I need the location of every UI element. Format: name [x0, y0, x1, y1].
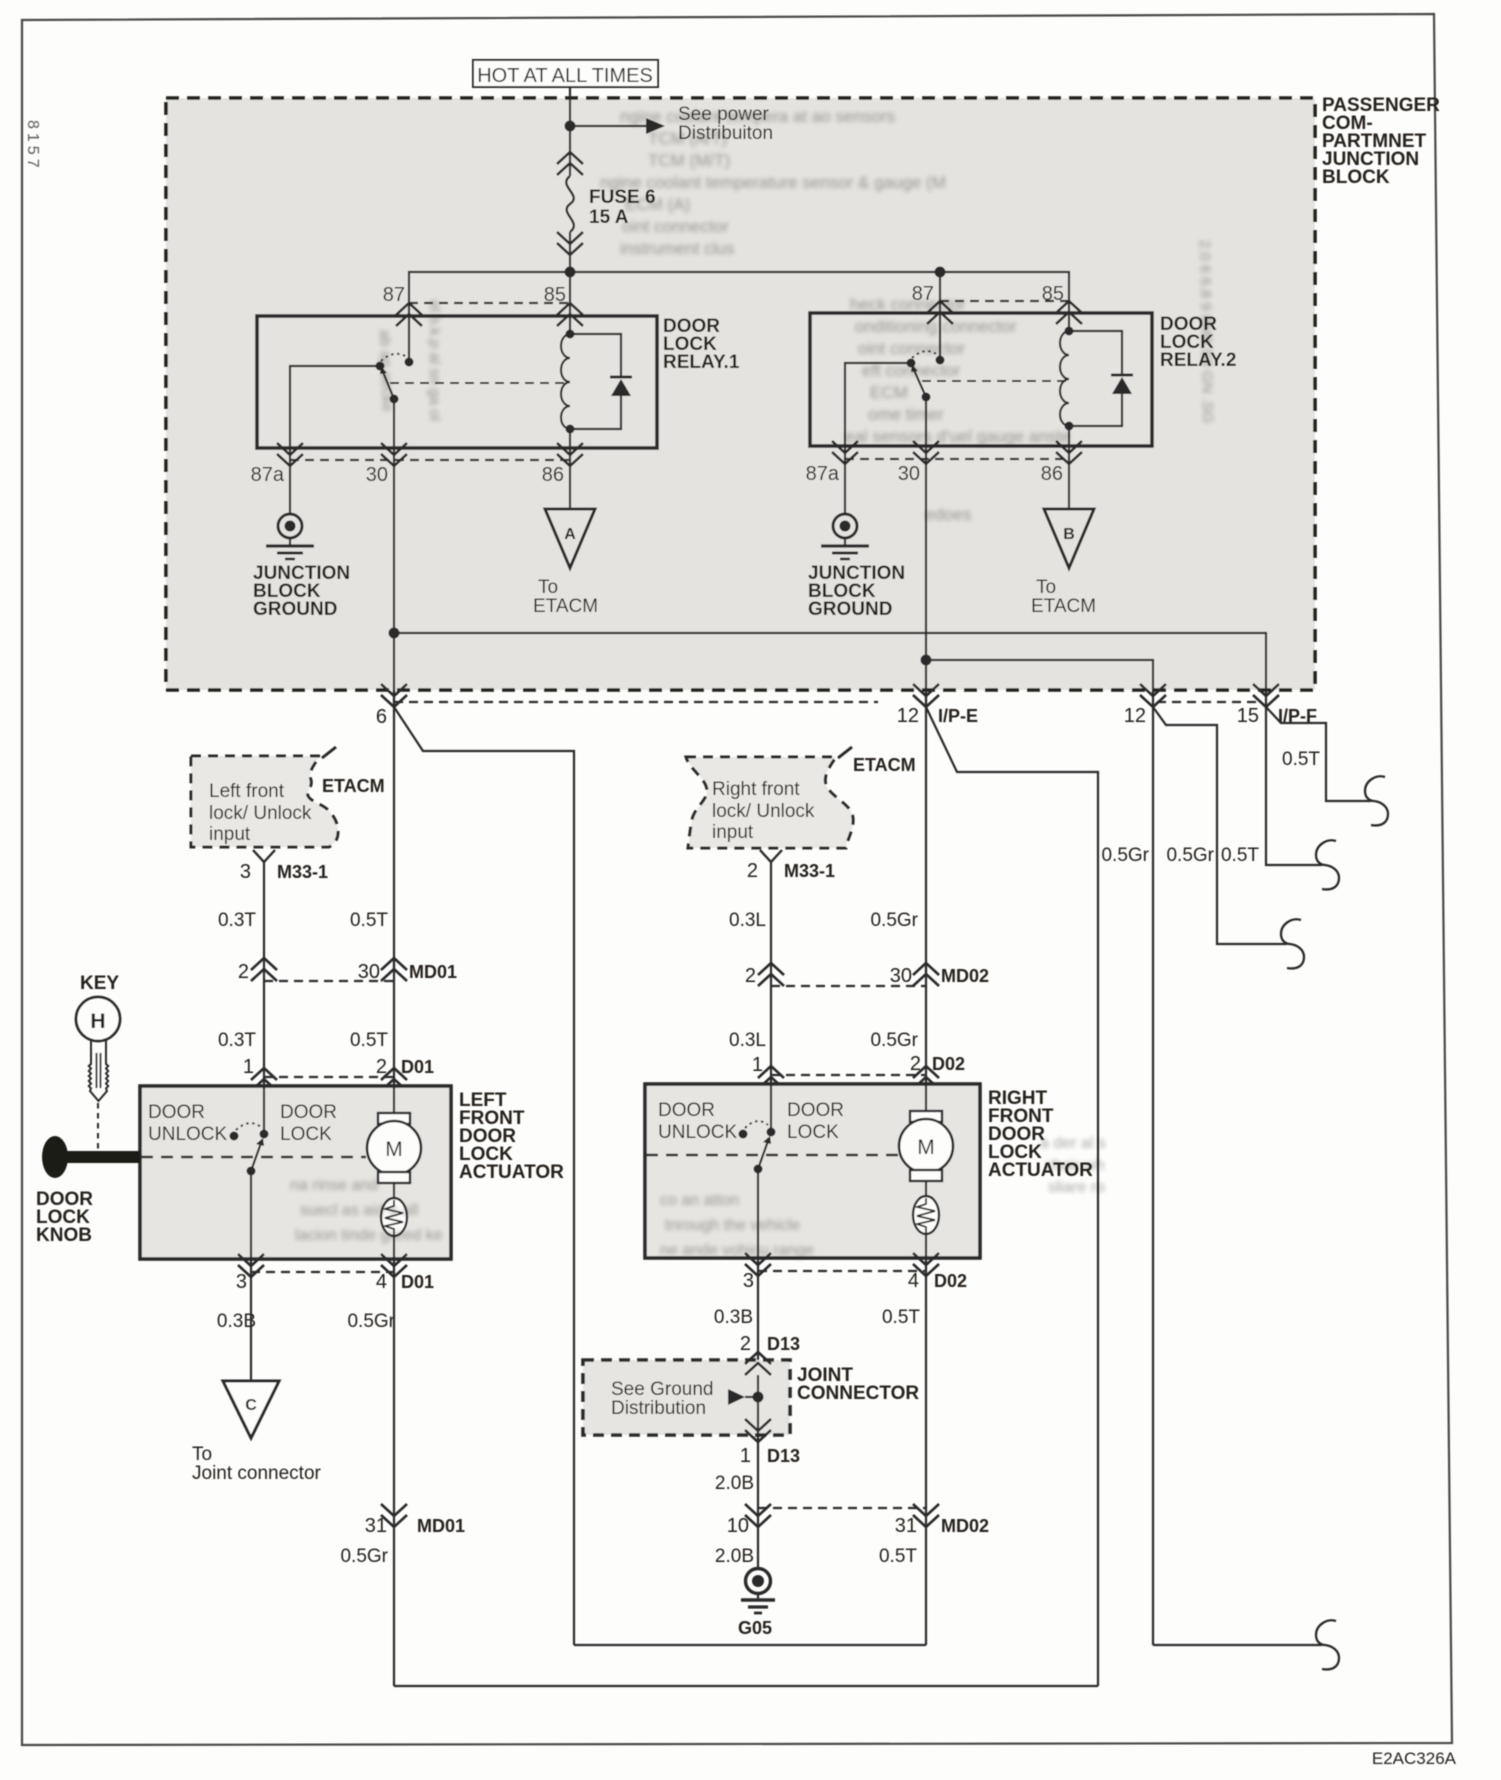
node on wire 30/6: [389, 628, 400, 639]
relay 2 contact dot (87): [936, 356, 945, 365]
relay 2 pin dashed link 87a-30-86: [845, 458, 1069, 460]
relay 2 diode D2: [1111, 375, 1133, 394]
svg-text:el b.k.p al sn ga ol: el b.k.p al sn ga ol: [426, 300, 443, 421]
right actuator thermistor: [913, 1181, 939, 1258]
relay 2 contact dot (87a side): [907, 359, 916, 368]
relay 1 pin 85: [544, 284, 583, 326]
svg-text:4: 4: [376, 1271, 387, 1293]
right actuator lock contact dot: [767, 1128, 776, 1137]
relay 1 pin 30: [366, 443, 407, 486]
svg-text:86: 86: [1041, 463, 1063, 485]
ETACM bubble right (Right front lock/Unlock input): [686, 747, 853, 848]
relay 1 mechanical link (dashed): [390, 382, 570, 384]
svg-text:UNLOCK: UNLOCK: [148, 1124, 228, 1145]
svg-text:Distribution: Distribution: [611, 1398, 706, 1419]
left actuator lock contact dot: [260, 1130, 269, 1139]
relay 2 internal: 87 wire to contact: [939, 313, 941, 360]
squiggle end of 0.5T x1266 wire: [1316, 840, 1339, 889]
svg-text:6: 6: [376, 706, 387, 728]
exit pin 15 I/P-F: [1237, 684, 1317, 727]
svg-text:lock/ Unlock: lock/ Unlock: [209, 803, 312, 824]
svg-text:30: 30: [898, 463, 920, 485]
triangle connector C (to joint connector): [192, 1381, 322, 1484]
svg-text:0.3B: 0.3B: [714, 1307, 753, 1328]
left actuator mechanical link dashed: [141, 1156, 366, 1159]
right actuator pivot dot: [754, 1165, 763, 1174]
svg-text:TCM (M/T): TCM (M/T): [648, 151, 730, 170]
junction block ground symbol 2: [821, 514, 869, 559]
wire labels right row: [1101, 845, 1259, 866]
svg-text:2: 2: [376, 1056, 387, 1078]
svg-text:Left front: Left front: [209, 781, 285, 802]
node: branch to relay 2 pin 87: [935, 267, 946, 278]
wire MD02/2 down (0.3L): [770, 986, 772, 1084]
svg-text:chair wh: chair wh: [1045, 1157, 1105, 1174]
svg-text:0.5Gr: 0.5Gr: [347, 1311, 395, 1332]
label 0.3L lower: [729, 1030, 766, 1051]
svg-text:2: 2: [910, 1053, 921, 1075]
relay 1 pin 85 wire from feed: [569, 272, 571, 316]
svg-text:D13: D13: [767, 1446, 800, 1466]
svg-text:D13: D13: [767, 1334, 800, 1354]
svg-text:ETACM: ETACM: [322, 776, 385, 796]
svg-text:DOOR: DOOR: [787, 1100, 844, 1121]
relay 1 diode branch wires: [570, 334, 621, 429]
svg-text:M33-1: M33-1: [277, 862, 328, 882]
relay 2 switch blade: [911, 364, 926, 397]
svg-text:ab ap aecke: ab ap aecke: [376, 330, 396, 412]
relay 2 pin 85: [1042, 283, 1082, 324]
connector MD02 pin 10: [727, 1504, 771, 1537]
svg-text:DOOR: DOOR: [148, 1102, 205, 1123]
exit pin 12 (second): [1124, 684, 1166, 727]
right actuator DOOR UNLOCK label: [658, 1100, 738, 1143]
bottom wire loop right actuator to exit6 jog: [574, 1644, 926, 1646]
label 0.5Gr upper right col: [870, 910, 918, 931]
D02 bottom dashed link: [758, 1270, 926, 1272]
svg-text:suecl as aid e all: suecl as aid e all: [300, 1202, 418, 1219]
svg-text:D01: D01: [401, 1272, 434, 1292]
svg-text:87a: 87a: [806, 463, 840, 485]
svg-text:10: 10: [727, 1515, 749, 1537]
RIGHT FRONT DOOR LOCK ACTUATOR box: [645, 1084, 980, 1258]
svg-text:1: 1: [243, 1056, 254, 1078]
left actuator label: [459, 1090, 564, 1183]
relay 1 pin 86: [542, 443, 583, 486]
svg-text:onditioning connector: onditioning connector: [855, 317, 1017, 336]
passenger compartment junction block (dashed, shaded): [166, 98, 1315, 690]
faint page number 8157: [24, 120, 41, 172]
label 0.5T lower left col: [350, 1030, 388, 1051]
label PASSENGER COM-PARTMNET JUNCTION BLOCK: [1322, 95, 1440, 188]
relay 2 wire pivot to pin 30: [925, 397, 927, 446]
node: fuse output / relay feed: [565, 267, 576, 278]
svg-text:KEY: KEY: [80, 973, 119, 994]
connector D02 pin 1 chevron: [752, 1054, 784, 1089]
wire 0.5T label right top: [1282, 749, 1320, 770]
relay 2 pin 87a: [806, 441, 858, 485]
svg-text:co an atton: co an atton: [660, 1192, 739, 1209]
svg-text:2: 2: [745, 965, 756, 987]
svg-text:tnrough the vehicle: tnrough the vehicle: [665, 1217, 800, 1234]
squiggle end of x1153 wire: [1316, 1620, 1339, 1669]
label 0.5Gr left col: [347, 1311, 395, 1332]
relay 2 pin dashed link 87-85: [940, 300, 1069, 302]
right actuator pin 4 chevron: [908, 1253, 967, 1292]
connector MD02 pin 2 chevron: [745, 963, 784, 987]
wire left actuator pin4 down (0.5Gr): [393, 1259, 395, 1686]
relay 1 wire coil to pin 86: [569, 429, 571, 448]
relay 2 pin 30: [898, 441, 939, 485]
relay 1 switch blade: [380, 366, 394, 399]
svg-text:MD01: MD01: [409, 962, 457, 982]
wire node to exit 12 (second): [926, 660, 1153, 707]
svg-text:ETACM: ETACM: [853, 755, 916, 775]
relay 1 wire 85 to coil: [569, 316, 571, 334]
svg-text:ETACM: ETACM: [1031, 596, 1096, 617]
svg-text:ngine coolant temperature sens: ngine coolant temperature sensor & gauge…: [600, 173, 946, 192]
svg-text:na rinse and: na rinse and: [290, 1177, 378, 1194]
feed wire to both relays: [409, 272, 1069, 316]
relay 1 label: [663, 316, 740, 373]
svg-text:heck connector: heck connector: [850, 295, 966, 314]
relay 2 pivot dot (30): [922, 393, 931, 402]
connector D13 pin 2: [740, 1333, 800, 1375]
svg-text:a der al s: a der al s: [1040, 1135, 1106, 1152]
svg-text:input: input: [209, 824, 251, 845]
left actuator switch blade: [251, 1138, 264, 1171]
svg-text:E2AC326A: E2AC326A: [1372, 1749, 1457, 1768]
wire MD02/30 down (0.5Gr): [925, 963, 927, 1084]
svg-text:oint connector: oint connector: [858, 339, 965, 358]
label 0.5T upper left col: [350, 910, 388, 931]
relay 2 throw arc (dotted): [912, 351, 938, 358]
svg-text:ETACM: ETACM: [533, 596, 598, 617]
connector MD02 pin 30 chevron: [890, 963, 989, 987]
right actuator unlock contact dot: [739, 1130, 748, 1139]
connector D02 pin 2 chevron: [910, 1053, 965, 1089]
left actuator pin 4 chevron: [376, 1254, 434, 1293]
wire relay2 30 down to exit I/P-E 12: [925, 446, 927, 707]
MD02 10-31 dashed link: [758, 1507, 926, 1509]
right actuator wire pin1 to contact: [770, 1084, 772, 1132]
svg-text:2: 2: [238, 961, 249, 983]
svg-text:H: H: [90, 1010, 105, 1033]
squiggle end of 0.5Gr x1217 wire: [1281, 919, 1304, 968]
wire through joint connector: [757, 1375, 759, 1420]
svg-text:Joint connector: Joint connector: [192, 1463, 322, 1484]
wire relay1 87a to ground: [289, 448, 291, 514]
svg-text:1: 1: [752, 1054, 763, 1076]
svg-text:D01: D01: [401, 1057, 434, 1077]
svg-text:2.0B: 2.0B: [715, 1473, 754, 1494]
node on wire relay2-30: [921, 655, 932, 666]
svg-text:3: 3: [743, 1270, 754, 1292]
relay 2 coil top node: [1065, 327, 1074, 336]
svg-text:M: M: [385, 1138, 403, 1161]
svg-text:RELAY.1: RELAY.1: [663, 352, 740, 373]
svg-text:HOT AT ALL TIMES: HOT AT ALL TIMES: [477, 65, 653, 87]
relay 2 mechanical link (dashed): [922, 380, 1068, 382]
right actuator throw arc (dotted): [745, 1121, 768, 1128]
svg-text:ACTUATOR: ACTUATOR: [459, 1162, 564, 1183]
wire exit15 jog to x1326 (0.5T): [1266, 707, 1371, 801]
svg-text:86: 86: [542, 464, 564, 486]
wire exit I/P-E straight down (0.5Gr): [925, 690, 927, 975]
svg-text:GROUND: GROUND: [253, 599, 337, 620]
svg-text:D02: D02: [934, 1271, 967, 1291]
left actuator unlock contact dot: [230, 1132, 239, 1141]
svg-text:0.5T: 0.5T: [1282, 749, 1320, 770]
label 0.3L upper: [729, 910, 766, 931]
svg-text:15: 15: [1237, 705, 1259, 727]
triangle connector B (to ETACM): [1031, 509, 1096, 617]
left actuator wire pivot to pin3: [250, 1171, 252, 1259]
right actuator wire pivot to pin3: [757, 1169, 759, 1258]
label 0.3B right: [714, 1307, 753, 1328]
svg-text:ome timer: ome timer: [868, 405, 944, 424]
connector M33-1 pin 3 (left): [240, 850, 328, 883]
relay 1 pivot dot (30): [390, 395, 399, 404]
node: power feed junction: [565, 121, 576, 132]
wire MD01/30 down (0.5T): [393, 958, 395, 1086]
wire from HOT box down to node: [569, 87, 571, 126]
svg-text:C: C: [245, 1397, 257, 1414]
relay 2 pin 86: [1041, 441, 1082, 485]
svg-text:To: To: [192, 1444, 212, 1465]
svg-text:TCM (A/T): TCM (A/T): [648, 129, 727, 148]
svg-text:B: B: [1063, 526, 1075, 543]
arrow to joint connector node: [728, 1389, 758, 1405]
relay 1 pin dashed link 87a-30-86: [290, 459, 570, 461]
wire exit15 straight down (0.5T): [1266, 707, 1322, 865]
relay 1 wire pivot to pin 30: [393, 399, 395, 448]
svg-text:LOCK: LOCK: [787, 1122, 839, 1143]
label 2.0B upper: [715, 1473, 754, 1494]
right actuator motor M: [899, 1084, 953, 1181]
connector D13 pin 1: [740, 1419, 800, 1467]
relay 2 diode branch wires: [1069, 331, 1122, 426]
squiggle end of 0.5T x1326 wire: [1365, 776, 1388, 825]
svg-text:0.5T: 0.5T: [1221, 845, 1259, 866]
fuse FUSE 6 15 A: [557, 152, 656, 255]
label 2.0B lower: [715, 1546, 754, 1567]
connector M33-1 pin 2 (right): [747, 850, 835, 882]
svg-text:CONNECTOR: CONNECTOR: [797, 1383, 919, 1404]
connector D01 pin 1 chevron: [243, 1056, 277, 1091]
svg-text:MD02: MD02: [941, 1516, 989, 1536]
svg-text:30: 30: [358, 961, 380, 983]
wire fuse to feed node: [569, 255, 571, 272]
svg-text:BLOCK: BLOCK: [1322, 167, 1390, 188]
relay 2 wire 87a contact to pin 87a: [845, 363, 911, 446]
left actuator DOOR UNLOCK label: [148, 1102, 228, 1145]
svg-text:sliare ro: sliare ro: [1048, 1179, 1105, 1196]
svg-text:DOOR: DOOR: [658, 1100, 715, 1121]
relay 1 internal: 87 wire to contact: [408, 316, 410, 362]
MD01 dashed link: [264, 980, 394, 982]
svg-text:0.5Gr: 0.5Gr: [870, 910, 918, 931]
svg-text:3: 3: [236, 1271, 247, 1293]
LEFT FRONT DOOR LOCK ACTUATOR box: [140, 1086, 451, 1259]
label 0.3B left: [217, 1311, 256, 1332]
D02 top dashed link: [771, 1074, 926, 1076]
exit pin 6: [376, 684, 407, 728]
relay 2 coil bottom node: [1065, 422, 1074, 431]
wire node to fuse: [569, 126, 571, 152]
wire D13-1 down: [757, 1420, 759, 1527]
relay 1 wire 87a contact to pin 87a: [290, 366, 380, 448]
svg-text:DOOR: DOOR: [280, 1102, 337, 1123]
svg-text:0.5T: 0.5T: [350, 910, 388, 931]
svg-text:2: 2: [740, 1333, 751, 1355]
right actuator label: [988, 1088, 1093, 1181]
svg-text:LOCK: LOCK: [280, 1124, 332, 1145]
wire MD02-10 down to ground: [757, 1527, 759, 1569]
wire relay2 86 to triangle B: [1068, 446, 1070, 509]
left actuator pivot dot: [247, 1167, 256, 1176]
relay 2 coil: [1060, 331, 1069, 426]
svg-text:eal sensors d'uel gauge anste: eal sensors d'uel gauge anste: [845, 427, 1070, 446]
svg-text:30: 30: [366, 464, 388, 486]
JOINT CONNECTOR dashed box: [583, 1360, 790, 1435]
scan ghost texture: [290, 107, 1216, 1259]
svg-text:KNOB: KNOB: [36, 1225, 92, 1246]
wire exit I/P-E jog to x1098: [926, 707, 1098, 1686]
svg-text:M: M: [917, 1136, 935, 1159]
D01 bottom dashed link: [251, 1271, 394, 1273]
relay 2 label: [1160, 314, 1236, 371]
See Ground Distribution note: [611, 1379, 713, 1419]
relay 1 coil top node: [566, 330, 575, 339]
svg-text:0.3T: 0.3T: [218, 1030, 256, 1051]
svg-text:0.5Gr: 0.5Gr: [1101, 845, 1149, 866]
wire relay1 86 to triangle A: [569, 448, 571, 509]
svg-text:0.3L: 0.3L: [729, 910, 766, 931]
relay 1 coil: [561, 334, 570, 429]
relay 1 contact dot (87a side): [376, 362, 385, 371]
relay 1 throw arc (dotted): [381, 354, 407, 361]
relay 2 wire coil to pin 86: [1068, 426, 1070, 446]
relay 2 pin 87: [912, 283, 953, 324]
right actuator mechanical link dashed: [646, 1154, 898, 1157]
svg-text:oint connector: oint connector: [622, 217, 729, 236]
svg-text:To: To: [1036, 577, 1056, 598]
svg-text:I/P-E: I/P-E: [938, 706, 978, 726]
left actuator DOOR LOCK label: [280, 1102, 337, 1145]
label 0.3T upper: [218, 910, 256, 931]
svg-text:input: input: [712, 822, 754, 843]
relay 2 wire 85 to coil: [1068, 313, 1070, 331]
label 0.5Gr below MD01-31: [340, 1546, 388, 1567]
relay 1 pin 87a: [251, 443, 303, 486]
svg-text:D02: D02: [932, 1054, 965, 1074]
wire relay1 30 down to exit 6: [393, 448, 395, 707]
wire exit6 jog to x574: [394, 707, 574, 1645]
wire branch down to relay2 87: [939, 272, 941, 313]
connector D01 pin 2 chevron: [376, 1056, 434, 1091]
svg-text:G05: G05: [738, 1618, 772, 1638]
svg-text:MD02: MD02: [941, 966, 989, 986]
relay U2 DOOR LOCK RELAY.2 box: [810, 313, 1152, 446]
right actuator pin 3 chevron: [743, 1253, 771, 1292]
svg-text:0.5T: 0.5T: [879, 1546, 917, 1567]
ground G05: [738, 1569, 775, 1639]
label JUNCTION BLOCK GROUND 1: [253, 563, 350, 620]
I/P connector dashed boundary line: [394, 701, 1257, 703]
joint connector node dot: [753, 1392, 764, 1403]
wire node to I/P-F 15 exit: [394, 633, 1266, 707]
svg-text:31: 31: [895, 1515, 917, 1537]
label 0.5T right col: [882, 1307, 920, 1328]
svg-text:0.5Gr: 0.5Gr: [340, 1546, 388, 1567]
svg-text:lacion tinde greed ke: lacion tinde greed ke: [295, 1227, 443, 1244]
svg-text:ne ande vohicu range: ne ande vohicu range: [660, 1242, 814, 1259]
right actuator switch blade: [758, 1136, 771, 1169]
connector MD01 pin 31: [365, 1504, 465, 1537]
svg-text:4: 4: [908, 1270, 919, 1292]
svg-text:8157: 8157: [24, 120, 41, 172]
dashed link key to knob bar: [97, 1103, 99, 1152]
svg-text:See Ground: See Ground: [611, 1379, 713, 1400]
connector MD01 pin 2 chevron: [238, 958, 277, 983]
wire exit12b jog to x1217 (0.5Gr): [1153, 707, 1287, 944]
svg-text:MD01: MD01: [417, 1516, 465, 1536]
diagram code E2AC326A: [1372, 1749, 1457, 1768]
svg-text:87: 87: [383, 284, 405, 306]
svg-text:GROUND: GROUND: [808, 599, 892, 620]
wire relay2 87a to ground: [844, 446, 846, 514]
ETACM bubble left (Left front lock/Unlock input): [191, 747, 338, 847]
D01 top dashed link: [264, 1076, 394, 1078]
relay U1 DOOR LOCK RELAY.1 box: [257, 316, 657, 448]
svg-text:31: 31: [365, 1515, 387, 1537]
wire M33-1/3 down (0.3T): [263, 862, 265, 981]
svg-text:0.3L: 0.3L: [729, 1030, 766, 1051]
label ETACM right: [853, 755, 916, 775]
relay 1 pin 87: [383, 284, 422, 326]
left actuator throw arc (dotted): [236, 1123, 261, 1130]
relay 1 diode D1: [610, 377, 632, 396]
wire exit6 straight down (0.5T): [393, 690, 395, 970]
bottom wire loop left actuator to I/P-E jog: [394, 1685, 1098, 1687]
label DOOR LOCK KNOB: [36, 1189, 93, 1246]
svg-text:eft connector: eft connector: [862, 361, 961, 380]
connector MD02 pin 31: [895, 1504, 989, 1537]
svg-text:1: 1: [740, 1445, 751, 1467]
svg-text:12: 12: [897, 705, 919, 727]
svg-text:Right front: Right front: [712, 779, 800, 800]
KEY symbol: [76, 973, 120, 1101]
svg-text:instrument clus: instrument clus: [620, 239, 734, 258]
label 0.3T lower: [218, 1030, 256, 1051]
svg-text:2.0B: 2.0B: [715, 1546, 754, 1567]
exit pin 12 I/P-E: [897, 684, 978, 727]
HOT AT ALL TIMES box: [473, 60, 658, 87]
svg-text:0.5Gr: 0.5Gr: [1166, 845, 1214, 866]
svg-text:M33-1: M33-1: [784, 861, 835, 881]
svg-text:A: A: [564, 526, 576, 543]
relay 1 coil bottom node: [566, 425, 575, 434]
label ETACM left: [322, 776, 385, 796]
svg-text:To: To: [538, 577, 558, 598]
wire M33-1/2 down (0.3L): [770, 862, 772, 986]
wire right actuator pin3 down (0.3B): [757, 1258, 759, 1375]
wire MD01/2 down (0.3T): [263, 981, 265, 1086]
svg-text:12: 12: [1124, 705, 1146, 727]
svg-text:3: 3: [240, 861, 251, 883]
label 0.5T below MD02-31: [879, 1546, 917, 1567]
